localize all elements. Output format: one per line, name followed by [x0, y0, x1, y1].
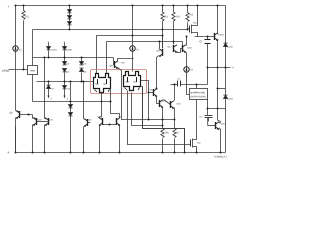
node junctions bottom rail — [15, 152, 222, 154]
mosfet M2 — [191, 139, 202, 153]
svg-text:TL/H/9312-1: TL/H/9312-1 — [214, 156, 228, 159]
wire drain drop — [143, 87, 185, 153]
wire buffer drop — [196, 100, 198, 139]
node G — [200, 41, 202, 43]
svg-text:D203: D203 — [228, 98, 234, 101]
transistor Q3b — [33, 118, 43, 153]
resistor R7 — [173, 129, 180, 153]
wire gate feed — [128, 91, 191, 145]
svg-text:R3: R3 — [177, 16, 181, 19]
transistor Q15 — [164, 85, 182, 129]
transistor Q5 — [10, 111, 33, 153]
transistor Q17 — [168, 42, 183, 53]
mosfet M1 — [188, 6, 198, 37]
wire out tap — [208, 67, 235, 70]
wire right edge rail — [225, 6, 227, 153]
wire rail H3 — [33, 57, 114, 59]
capacitor C2 — [200, 100, 213, 122]
resistor R6 — [161, 129, 169, 153]
input quad Q3 Q4 — [124, 72, 141, 91]
diode D10 — [224, 95, 234, 100]
wire input base line H4 — [37, 81, 94, 83]
wire ground drop with diodes — [69, 82, 73, 153]
clamp diode pair D5 D6 — [80, 58, 88, 82]
diode string D10 — [68, 6, 72, 30]
wire W2 collector load — [107, 42, 183, 74]
buffer block — [190, 89, 208, 100]
wire Q4 feed vertical — [44, 58, 46, 119]
capacitor C1 — [171, 78, 208, 87]
svg-text:R1: R1 — [26, 16, 30, 19]
diode D1 with stub — [47, 41, 58, 58]
svg-text:D200: D200 — [67, 49, 73, 52]
wire box vertical — [32, 30, 34, 102]
node junctions output stage — [207, 67, 227, 110]
current source I3 — [184, 67, 193, 95]
svg-text:R2: R2 — [165, 16, 169, 19]
node junctions second stage — [148, 84, 198, 127]
load resistor R3 — [172, 6, 180, 45]
transistor Q19 — [215, 6, 225, 122]
svg-text:BUFFER AND: BUFFER AND — [191, 92, 206, 95]
transistor Q14 — [157, 96, 167, 129]
wire mirror tie — [132, 93, 163, 126]
svg-text:D202: D202 — [228, 46, 234, 49]
node junctions load wires — [132, 35, 209, 43]
figure number — [214, 156, 228, 159]
diode D2 with stub — [63, 41, 73, 58]
transistor Q9 — [110, 58, 134, 69]
wire Q6 collector — [83, 82, 85, 119]
resistor R4 — [186, 6, 193, 30]
svg-text:100kΩ: 100kΩ — [2, 70, 10, 73]
transistor Q7 — [98, 116, 103, 153]
svg-text:OUTPUT BIAS: OUTPUT BIAS — [191, 96, 207, 99]
wire top V+ rail — [16, 5, 226, 7]
wire base feed — [195, 36, 215, 38]
node junctions mirror bus H5 — [70, 101, 112, 126]
transistor Q4b — [37, 118, 54, 153]
label V- pin 4 — [8, 151, 10, 155]
diode D9 — [224, 43, 234, 48]
label 100k trim — [2, 70, 28, 73]
svg-text:R4: R4 — [190, 14, 194, 17]
wire mirror collector — [99, 93, 102, 118]
wire box top feed — [196, 85, 198, 89]
trim block box — [28, 66, 38, 75]
transistor Q6 — [84, 119, 93, 153]
input quad Q1 Q2 — [94, 74, 111, 93]
wire Q10 emitter drop — [118, 68, 175, 120]
capacitor C3 — [205, 37, 211, 85]
transistor Q16 — [157, 36, 163, 87]
wire H5 mirror bus — [33, 101, 111, 103]
label V+ pin 7 — [8, 5, 10, 9]
node junctions rail H3 — [44, 57, 83, 59]
transistor Q20 — [208, 118, 226, 153]
svg-text:TRIM: TRIM — [30, 70, 36, 73]
wire mirror base tap — [111, 89, 120, 118]
current source I2 — [130, 6, 139, 72]
transistor Q13 — [141, 81, 158, 120]
transistor Q8 — [103, 116, 123, 153]
wire bottom V- rail — [16, 152, 226, 154]
svg-text:D201: D201 — [52, 49, 58, 52]
node junction trim wire — [23, 69, 30, 116]
highlight red box — [91, 70, 147, 94]
load resistor R2 — [161, 6, 168, 49]
node junctions rail H2 — [69, 29, 189, 31]
transistor Q18 — [183, 37, 193, 67]
node junctions input base line — [48, 81, 85, 83]
node junctions top rail — [15, 5, 219, 7]
resistor R1 — [22, 6, 29, 70]
clamp diode pair D3 D4 — [63, 58, 71, 82]
input diode minus — [47, 82, 56, 101]
wire W1 collector load — [97, 36, 163, 74]
wire tie upper — [218, 88, 226, 90]
wire tail drop — [141, 87, 185, 153]
wire rail H2 — [33, 29, 188, 31]
wire tie lower — [208, 108, 226, 110]
input diode plus — [63, 82, 72, 101]
current source I1 — [13, 46, 22, 52]
wire left rail — [15, 6, 17, 153]
